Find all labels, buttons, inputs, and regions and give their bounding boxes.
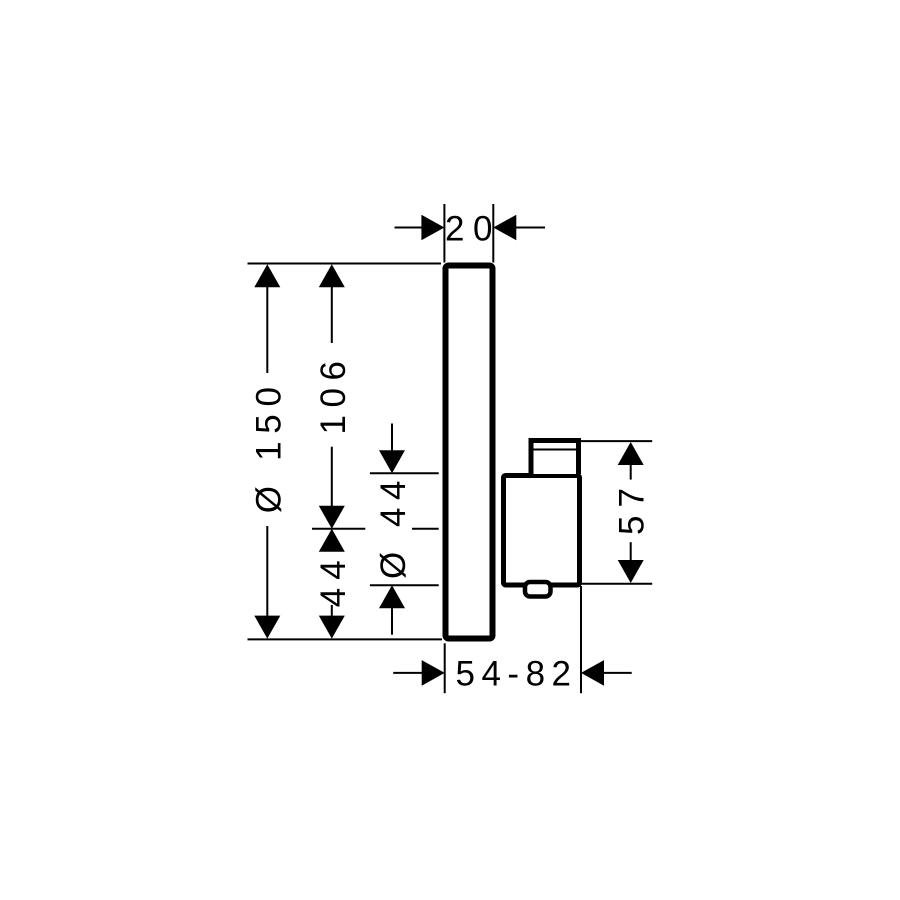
svg-text:57: 57 [613, 480, 652, 535]
svg-text:Ø 150: Ø 150 [249, 379, 288, 513]
svg-text:44: 44 [314, 552, 353, 607]
svg-text:Ø 44: Ø 44 [374, 473, 413, 579]
svg-text:54-82: 54-82 [455, 654, 577, 693]
svg-text:20: 20 [445, 209, 501, 248]
svg-text:106: 106 [314, 354, 353, 435]
